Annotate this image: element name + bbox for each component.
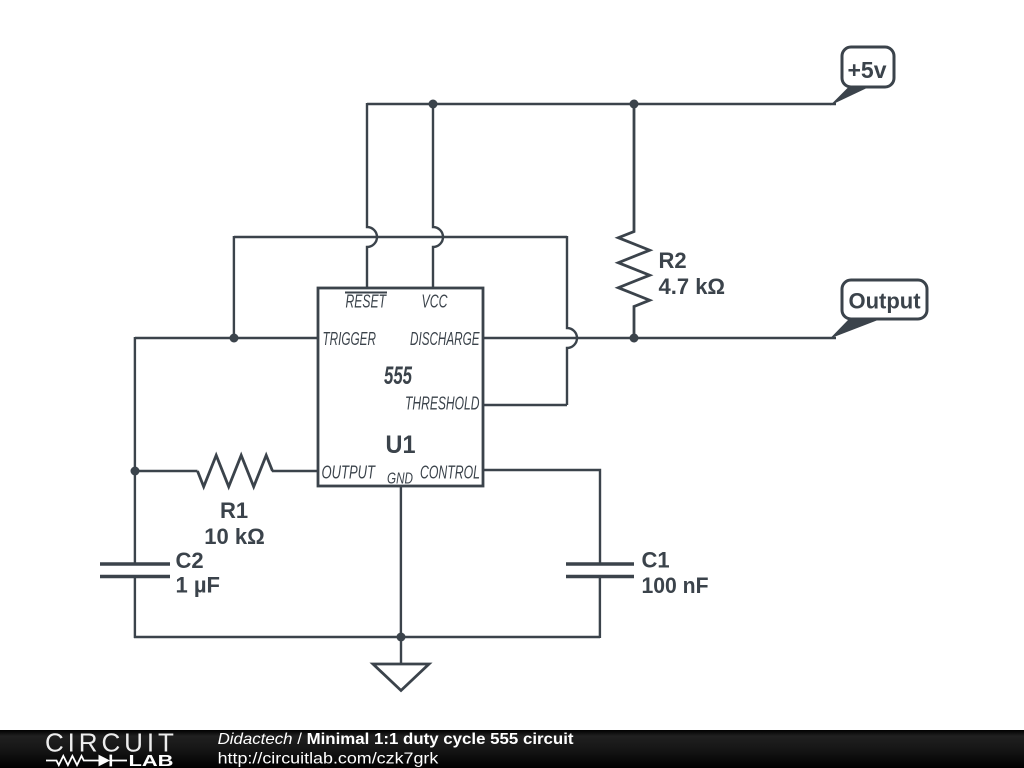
footer url line	[218, 749, 439, 767]
wire CONTROL	[483, 470, 600, 564]
svg-text:THRESHOLD: THRESHOLD	[405, 393, 480, 414]
svg-text:DISCHARGE: DISCHARGE	[410, 328, 480, 349]
svg-text:R2: R2	[659, 248, 687, 273]
svg-text:1 µF: 1 µF	[176, 573, 220, 598]
logo diode	[99, 755, 111, 767]
svg-text:R1: R1	[220, 498, 248, 523]
svg-text:TRIGGER: TRIGGER	[323, 328, 377, 349]
wire +5v rail top	[367, 103, 836, 105]
svg-text:LAB: LAB	[129, 753, 174, 768]
capacitor C1	[566, 548, 709, 599]
junction dot R2 top	[630, 100, 639, 109]
net flag Output	[830, 280, 927, 339]
wire GND pin	[400, 486, 402, 637]
svg-text:+5v: +5v	[847, 57, 886, 83]
svg-text:4.7 kΩ: 4.7 kΩ	[659, 274, 726, 299]
wire TRIGGER	[135, 337, 318, 339]
wire C1 bottom	[599, 577, 601, 638]
footer title line	[218, 730, 575, 747]
wire link left vertical	[233, 236, 235, 338]
svg-text:VCC: VCC	[422, 291, 448, 312]
wire THRESHOLD	[483, 404, 567, 406]
junction dot ground rail	[397, 633, 406, 642]
junction dot VCC branch	[429, 100, 438, 109]
wire VCC vertical with hop	[433, 104, 443, 289]
wire link right vertical with hop	[567, 236, 577, 405]
svg-text:http://circuitlab.com/czk7grk: http://circuitlab.com/czk7grk	[218, 749, 439, 767]
ground	[373, 637, 429, 691]
svg-text:Didactech / Minimal 1:1 duty c: Didactech / Minimal 1:1 duty cycle 555 c…	[218, 730, 575, 747]
wire left vertical to C2	[134, 337, 136, 564]
footer bar	[0, 730, 1024, 768]
svg-text:GND: GND	[387, 471, 413, 488]
svg-text:OUTPUT: OUTPUT	[322, 462, 377, 483]
resistor R2	[618, 104, 725, 338]
svg-text:C1: C1	[642, 548, 670, 573]
svg-text:C2: C2	[176, 548, 204, 573]
svg-text:100 nF: 100 nF	[642, 573, 709, 598]
svg-text:U1: U1	[386, 431, 416, 459]
op-amp U1 555 IC body	[318, 288, 483, 488]
svg-text:RESET: RESET	[346, 291, 388, 312]
wire R1 right lead	[272, 470, 318, 472]
junction dot trigger link	[230, 334, 239, 343]
resistor R1	[198, 455, 273, 549]
capacitor C2	[100, 548, 220, 598]
wire R1 left lead	[135, 470, 198, 472]
svg-text:CONTROL: CONTROL	[420, 462, 480, 483]
logo resistor-diode symbol	[46, 756, 127, 765]
junction dot R1/C2	[131, 467, 140, 476]
wire C2 bottom to ground rail	[134, 577, 136, 638]
net flag +5v	[830, 47, 894, 106]
junction dot R2 bottom	[630, 334, 639, 343]
wire trigger-threshold link horizontal	[234, 236, 567, 238]
svg-text:10 kΩ: 10 kΩ	[204, 524, 264, 549]
svg-text:Output: Output	[848, 289, 921, 314]
wire DISCHARGE to output flag	[483, 337, 836, 339]
svg-text:555: 555	[384, 362, 413, 390]
wire ground rail	[134, 636, 600, 638]
wire RESET vertical with hop	[367, 103, 377, 289]
